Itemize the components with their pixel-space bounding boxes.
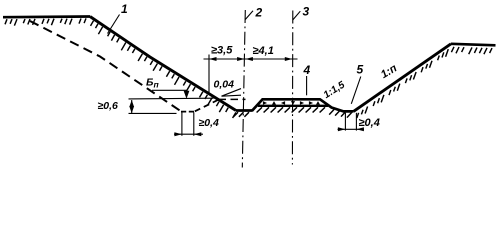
label 1 leader [108, 15, 120, 34]
svg-text:≥3,5: ≥3,5 [211, 45, 233, 57]
label 2 [255, 6, 263, 20]
svg-text:1: 1 [121, 2, 128, 16]
hatching trench bottom left [233, 112, 249, 117]
hatching ground right [451, 47, 492, 54]
road level line dashed [219, 98, 246, 100]
road level line solid [129, 97, 214, 100]
label 4 [303, 63, 311, 77]
berm width leader [152, 90, 189, 99]
dashed alternate slope line [30, 21, 181, 111]
svg-text:≥4,1: ≥4,1 [253, 45, 274, 57]
dim text 0,4 right [359, 117, 380, 129]
svg-text:2: 2 [255, 6, 263, 20]
svg-text:≥0,4: ≥0,4 [359, 117, 380, 129]
dimension 0,4 left [174, 112, 203, 136]
dashed ditch profile [181, 99, 220, 111]
hatching under right ditch [329, 110, 352, 118]
label 1:1,5 [322, 79, 348, 101]
label 0,04 [214, 79, 235, 91]
svg-text:≥0,6: ≥0,6 [98, 100, 119, 112]
centerline 2 [242, 10, 245, 168]
dim text 0,4 left [199, 117, 220, 129]
dim text 0,6 [98, 100, 119, 112]
ballast triangles [263, 101, 320, 105]
label 1:n [379, 62, 400, 81]
hatching ground left [5, 18, 86, 25]
hatching under road base [257, 107, 325, 112]
label 3 [303, 5, 310, 19]
slope symbol 0,04 [222, 89, 242, 97]
road base line [258, 105, 328, 107]
hatching left slope [91, 21, 236, 118]
label Bp [146, 77, 159, 90]
dim text 4,1 [253, 45, 274, 57]
road embankment outline [252, 99, 354, 111]
svg-text:3: 3 [303, 5, 310, 19]
label 3 tick [293, 11, 301, 20]
dimension 0,4 right [338, 113, 365, 132]
label 5 [357, 63, 364, 77]
label 1 [121, 2, 128, 16]
trench bottom left [236, 109, 253, 112]
svg-text:≥0,4: ≥0,4 [199, 117, 220, 129]
right slope line [354, 44, 452, 112]
dimension 0,6 [129, 100, 177, 113]
dim text 3,5 [211, 45, 233, 57]
svg-text:4: 4 [303, 63, 311, 77]
svg-text:0,04: 0,04 [214, 79, 235, 91]
ground surface left [3, 15, 90, 18]
centerline 3 [291, 11, 293, 165]
svg-text:5: 5 [357, 63, 364, 77]
label 5 leader [351, 77, 361, 104]
left slope line [90, 17, 236, 111]
dimension line 3,5 / 4,1 [204, 55, 298, 94]
hatching right slope [357, 49, 449, 118]
ground surface right [451, 44, 496, 46]
label 4 leader [306, 76, 308, 95]
label 2 tick [245, 11, 253, 20]
